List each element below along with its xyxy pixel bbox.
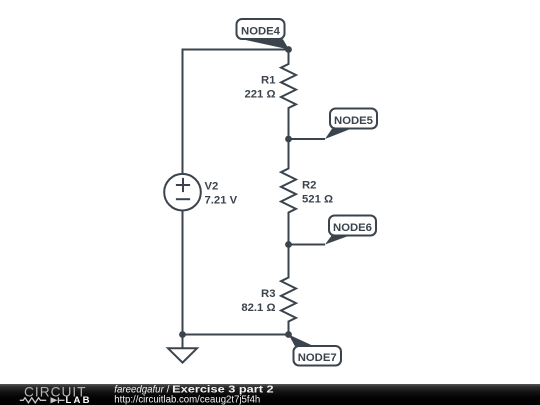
svg-text:NODE7: NODE7 bbox=[298, 352, 337, 364]
svg-text:R2: R2 bbox=[302, 180, 316, 192]
svg-text:R3: R3 bbox=[261, 288, 275, 300]
svg-text:R1: R1 bbox=[261, 75, 275, 87]
svg-text:NODE4: NODE4 bbox=[241, 25, 281, 37]
svg-text:7.21 V: 7.21 V bbox=[205, 195, 238, 207]
svg-text:NODE6: NODE6 bbox=[333, 222, 372, 234]
svg-text:V2: V2 bbox=[205, 181, 219, 193]
svg-text:http://circuitlab.com/ceaug2t7: http://circuitlab.com/ceaug2t7j5f4h bbox=[114, 394, 260, 405]
svg-text:NODE5: NODE5 bbox=[334, 115, 373, 127]
svg-text:LAB: LAB bbox=[66, 395, 92, 405]
svg-text:521 Ω: 521 Ω bbox=[302, 194, 333, 206]
svg-text:221 Ω: 221 Ω bbox=[244, 89, 275, 101]
svg-text:82.1 Ω: 82.1 Ω bbox=[241, 302, 275, 314]
